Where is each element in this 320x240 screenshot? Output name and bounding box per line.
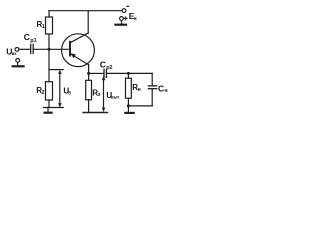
wire bottom output — [128, 105, 152, 107]
wire Ub top tap — [49, 69, 63, 71]
label Cn — [158, 83, 168, 94]
svg-text:н: н — [138, 87, 141, 93]
resistor R2 — [46, 49, 53, 107]
ground R2 — [45, 108, 52, 113]
svg-text:C: C — [24, 32, 30, 42]
node Rn bottom junction — [127, 104, 130, 107]
resistor Rn — [126, 73, 132, 106]
ground Rn — [125, 106, 133, 113]
label Uvx — [6, 46, 17, 56]
node Ub arrow — [58, 70, 61, 107]
label Rn — [132, 83, 141, 93]
resistor R1 — [46, 11, 53, 49]
label Ub — [63, 87, 71, 96]
svg-text:2: 2 — [42, 90, 45, 96]
label plus — [124, 17, 127, 20]
svg-text:э: э — [98, 92, 101, 98]
label Re — [92, 89, 100, 99]
capacitor Cp2 — [104, 69, 106, 77]
wire Cp2 to output — [107, 72, 152, 74]
wire output right down — [151, 73, 153, 85]
label Cp1 — [24, 32, 37, 44]
wire top supply rail — [49, 10, 122, 12]
terminal Ek minus — [122, 9, 126, 13]
node emitter junction — [87, 72, 90, 75]
svg-text:н: н — [164, 88, 167, 94]
wire R2 bottom tap — [44, 107, 64, 109]
label Ek — [129, 11, 137, 22]
terminal Ek plus — [120, 17, 124, 21]
capacitor Cn — [148, 86, 156, 89]
svg-text:C: C — [100, 59, 106, 69]
terminal input bottom — [16, 59, 20, 63]
ground input — [13, 62, 24, 66]
capacitor Cp1 — [31, 44, 34, 53]
node Uout arrow — [102, 76, 105, 111]
wire Cp1 to base — [34, 48, 70, 50]
svg-text:вых: вых — [111, 95, 120, 100]
svg-text:вх: вх — [12, 51, 18, 56]
label Uout — [106, 91, 120, 100]
wire emitter to Cp2 — [89, 72, 104, 74]
node Rn top junction — [127, 72, 130, 75]
ground Re bottom line — [83, 112, 107, 114]
wire input to Cp1 — [19, 48, 30, 50]
wire collector to rail — [87, 11, 89, 34]
ground Ek — [115, 21, 126, 25]
resistor Re — [86, 73, 92, 112]
wire Cn to bottom — [151, 89, 153, 106]
label minus — [127, 5, 129, 7]
svg-text:к: к — [134, 16, 137, 22]
label R1 — [37, 20, 45, 30]
svg-text:б: б — [68, 90, 71, 95]
wire emitter down — [88, 65, 90, 74]
label Cp2 — [100, 59, 113, 71]
terminal input top — [15, 48, 19, 52]
svg-text:p1: p1 — [30, 38, 36, 44]
svg-text:1: 1 — [42, 24, 45, 30]
svg-text:p2: p2 — [106, 65, 112, 71]
node base junction — [48, 48, 51, 51]
svg-text:C: C — [158, 83, 164, 93]
label R2 — [36, 86, 44, 96]
transistor VT1 — [62, 33, 95, 67]
